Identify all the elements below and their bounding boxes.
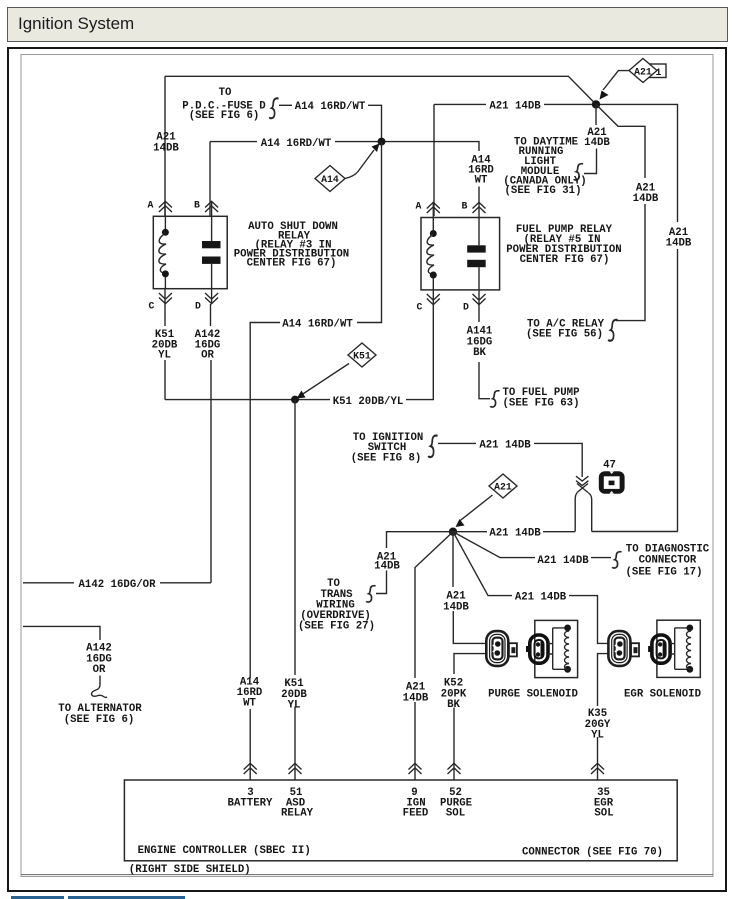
wire A21 top run to junction J1 (165, 76, 596, 104)
bracket trans wiring (366, 586, 375, 602)
svg-text:WT: WT (243, 698, 256, 710)
splice symbol A14 diamond with arrow (345, 150, 374, 179)
svg-text:14DB: 14DB (584, 137, 610, 149)
node junction dot J1 (592, 100, 600, 108)
svg-text:WT: WT (475, 175, 488, 187)
bracket A/C relay (608, 320, 617, 341)
splice symbol A21 diamond with arrow (459, 495, 493, 522)
relay ASD coil (164, 216, 166, 229)
svg-text:(SEE FIG 8): (SEE FIG 8) (351, 452, 422, 464)
svg-text:B: B (194, 200, 200, 211)
wire A21 J2 to ign feed pin 9 (415, 532, 453, 762)
svg-text:ENGINE CONTROLLER (SBEC II): ENGINE CONTROLLER (SBEC II) (138, 845, 311, 857)
button 2 (68, 896, 185, 899)
connector 47 male terminal (575, 493, 592, 532)
wire K51 down to pin 51 (294, 400, 296, 762)
relay FP coil (432, 218, 434, 231)
wire K35 from EGR connector down (598, 654, 609, 762)
svg-text:OR: OR (201, 350, 214, 362)
wire K51 from ASD pin C (164, 304, 166, 400)
header bar (7, 7, 728, 42)
svg-text:C: C (149, 301, 155, 312)
svg-text:14DB: 14DB (153, 143, 179, 155)
svg-text:(SEE FIG 56): (SEE FIG 56) (526, 329, 603, 341)
wire A142 16DG/OR horizontal (160, 582, 211, 584)
svg-text:TO DIAGNOSTIC: TO DIAGNOSTIC (626, 543, 710, 555)
svg-text:(SEE FIG 17): (SEE FIG 17) (626, 566, 703, 578)
connector purge harness oval (486, 631, 517, 666)
wire A141 from FP pin D to fuel pump (479, 305, 490, 399)
bracket daytime (574, 164, 583, 180)
wire A21 J2 left to trans wiring (376, 532, 453, 594)
connector 47 chevron and X (576, 476, 588, 485)
svg-text:FEED: FEED (403, 808, 429, 820)
svg-text:BK: BK (447, 699, 460, 711)
wire J1 diagonal to A/C relay branch (596, 104, 645, 178)
svg-text:A21: A21 (494, 482, 512, 493)
connector purge component half (526, 635, 548, 663)
svg-text:D: D (463, 302, 469, 313)
bracket fuel pump (490, 391, 499, 407)
svg-text:CONNECTOR (SEE FIG 70): CONNECTOR (SEE FIG 70) (522, 846, 663, 858)
svg-text:K51: K51 (353, 351, 371, 362)
splice symbol A21-1 diamond top right (603, 71, 629, 90)
svg-text:YL: YL (158, 350, 171, 362)
pin 9 chevron (409, 762, 422, 780)
svg-text:(SEE FIG 6): (SEE FIG 6) (64, 714, 135, 726)
svg-text:YL: YL (591, 730, 604, 742)
relay ASD contact (211, 216, 213, 241)
svg-text:14DB: 14DB (633, 193, 659, 205)
symbol alternator stub hook (92, 684, 108, 698)
svg-text:A21 14DB: A21 14DB (489, 101, 541, 113)
wire A14 16RD/WT from PDC fuse (279, 104, 292, 106)
node splice junction J2 dot (449, 528, 457, 536)
svg-text:A14 16RD/WT: A14 16RD/WT (295, 101, 366, 113)
svg-text:A14 16RD/WT: A14 16RD/WT (282, 319, 353, 331)
wire A14 battery run (357, 142, 382, 323)
bracket diagnostic (612, 552, 621, 568)
bracket ignition switch (428, 436, 437, 458)
svg-text:OR: OR (93, 664, 106, 676)
junction J1 wires (433, 104, 435, 216)
svg-text:(SEE FIG 63): (SEE FIG 63) (503, 397, 580, 409)
svg-text:47: 47 (603, 460, 616, 472)
wire A21 J2 to diagnostic connector (453, 532, 535, 558)
connector EGR harness oval (608, 631, 639, 666)
relay Fuel Pump box (421, 218, 500, 290)
connector 47 icon (599, 471, 625, 493)
svg-text:TO: TO (219, 87, 232, 99)
svg-text:SOL: SOL (594, 808, 613, 820)
svg-text:SOL: SOL (446, 808, 465, 820)
wire A21 J2 to EGR solenoid (453, 532, 512, 596)
wire K52 from purge connector down (454, 654, 487, 762)
purge solenoid box (535, 620, 578, 677)
wire A21 left drop to ASD relay pin A (164, 76, 166, 216)
splice symbol K51 diamond with arrow (302, 364, 349, 395)
EGR solenoid box (657, 620, 700, 677)
svg-text:YL: YL (288, 700, 301, 712)
svg-text:A21: A21 (634, 66, 652, 77)
svg-text:(SEE FIG 31): (SEE FIG 31) (505, 185, 582, 197)
button 1 (11, 896, 64, 899)
svg-text:A21 14DB: A21 14DB (489, 528, 541, 540)
wire A21 14DB to connector 47 (438, 442, 476, 444)
svg-text:1: 1 (656, 67, 662, 78)
wire A21 run J2 to connector 47 (453, 531, 487, 533)
svg-text:A21 14DB: A21 14DB (515, 592, 567, 604)
pin 51 chevron (289, 762, 302, 780)
svg-text:CENTER FIG 67): CENTER FIG 67) (520, 254, 610, 266)
pin 3 chevron (244, 762, 257, 780)
svg-text:A21 14DB: A21 14DB (479, 439, 531, 451)
svg-text:BK: BK (473, 347, 486, 359)
svg-text:PURGE SOLENOID: PURGE SOLENOID (488, 688, 578, 700)
wire A14 16RD/WT horizontal to relays (209, 142, 211, 216)
engine controller box (124, 780, 677, 861)
svg-text:A142 16DG/OR: A142 16DG/OR (79, 579, 157, 591)
svg-text:BATTERY: BATTERY (228, 797, 273, 809)
svg-text:A14: A14 (321, 174, 339, 185)
svg-text:(SEE FIG 27): (SEE FIG 27) (298, 621, 375, 633)
pin 52 chevron (448, 762, 461, 780)
svg-text:CONNECTOR: CONNECTOR (639, 555, 697, 567)
wire A142 from ASD pin D (210, 304, 213, 583)
svg-text:EGR SOLENOID: EGR SOLENOID (624, 688, 701, 700)
svg-text:B: B (462, 201, 468, 212)
node junction dot A14 (378, 138, 386, 146)
wire to alternator (23, 626, 100, 640)
svg-text:C: C (417, 302, 423, 313)
svg-text:K51 20DB/YL: K51 20DB/YL (333, 396, 404, 408)
wire J1 down to daytime module (595, 104, 597, 125)
relay ASD box (153, 216, 227, 288)
svg-text:CENTER FIG 67): CENTER FIG 67) (247, 258, 337, 270)
svg-text:14DB: 14DB (666, 238, 692, 250)
bracket PDC (269, 98, 278, 118)
svg-text:D: D (195, 301, 201, 312)
svg-text:14DB: 14DB (443, 602, 469, 614)
wire K51 20DB/YL horizontal run (165, 399, 330, 401)
svg-text:(RIGHT SIDE SHIELD): (RIGHT SIDE SHIELD) (129, 864, 251, 876)
relay FP contact (478, 218, 480, 246)
EGR solenoid coil (670, 628, 690, 669)
connector EGR component half (648, 635, 670, 663)
svg-text:A: A (148, 200, 154, 211)
svg-text:(SEE FIG 6): (SEE FIG 6) (189, 110, 260, 122)
svg-text:RELAY: RELAY (281, 808, 314, 820)
purge solenoid coil (548, 628, 568, 669)
pin 35 chevron (591, 762, 604, 780)
node junction dot K51 (291, 396, 299, 404)
svg-text:A14 16RD/WT: A14 16RD/WT (261, 138, 332, 150)
wire A21 J2 down to purge solenoid (453, 532, 487, 644)
svg-text:14DB: 14DB (403, 693, 429, 705)
svg-text:14DB: 14DB (374, 560, 400, 572)
svg-text:A: A (416, 201, 422, 212)
svg-text:A21 14DB: A21 14DB (537, 555, 589, 567)
